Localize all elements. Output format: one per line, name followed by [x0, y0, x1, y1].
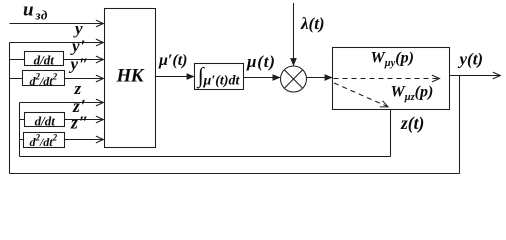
svg-text:λ(t): λ(t) — [300, 14, 325, 33]
svg-text:z″: z″ — [70, 113, 89, 133]
svg-text:НК: НК — [116, 66, 145, 87]
svg-text:y(t): y(t) — [458, 50, 484, 69]
svg-text:μ′(t): μ′(t) — [158, 52, 188, 69]
svg-text:u: u — [23, 0, 34, 21]
svg-text:d/dt: d/dt — [35, 113, 56, 128]
svg-text:μ(t): μ(t) — [246, 52, 276, 71]
svg-text:зд: зд — [35, 8, 48, 23]
svg-text:y″: y″ — [69, 55, 90, 74]
svg-text:y′: y′ — [70, 37, 86, 56]
svg-text:d/dt: d/dt — [34, 52, 55, 67]
svg-text:y: y — [73, 19, 83, 38]
svg-text:z(t): z(t) — [400, 113, 424, 133]
